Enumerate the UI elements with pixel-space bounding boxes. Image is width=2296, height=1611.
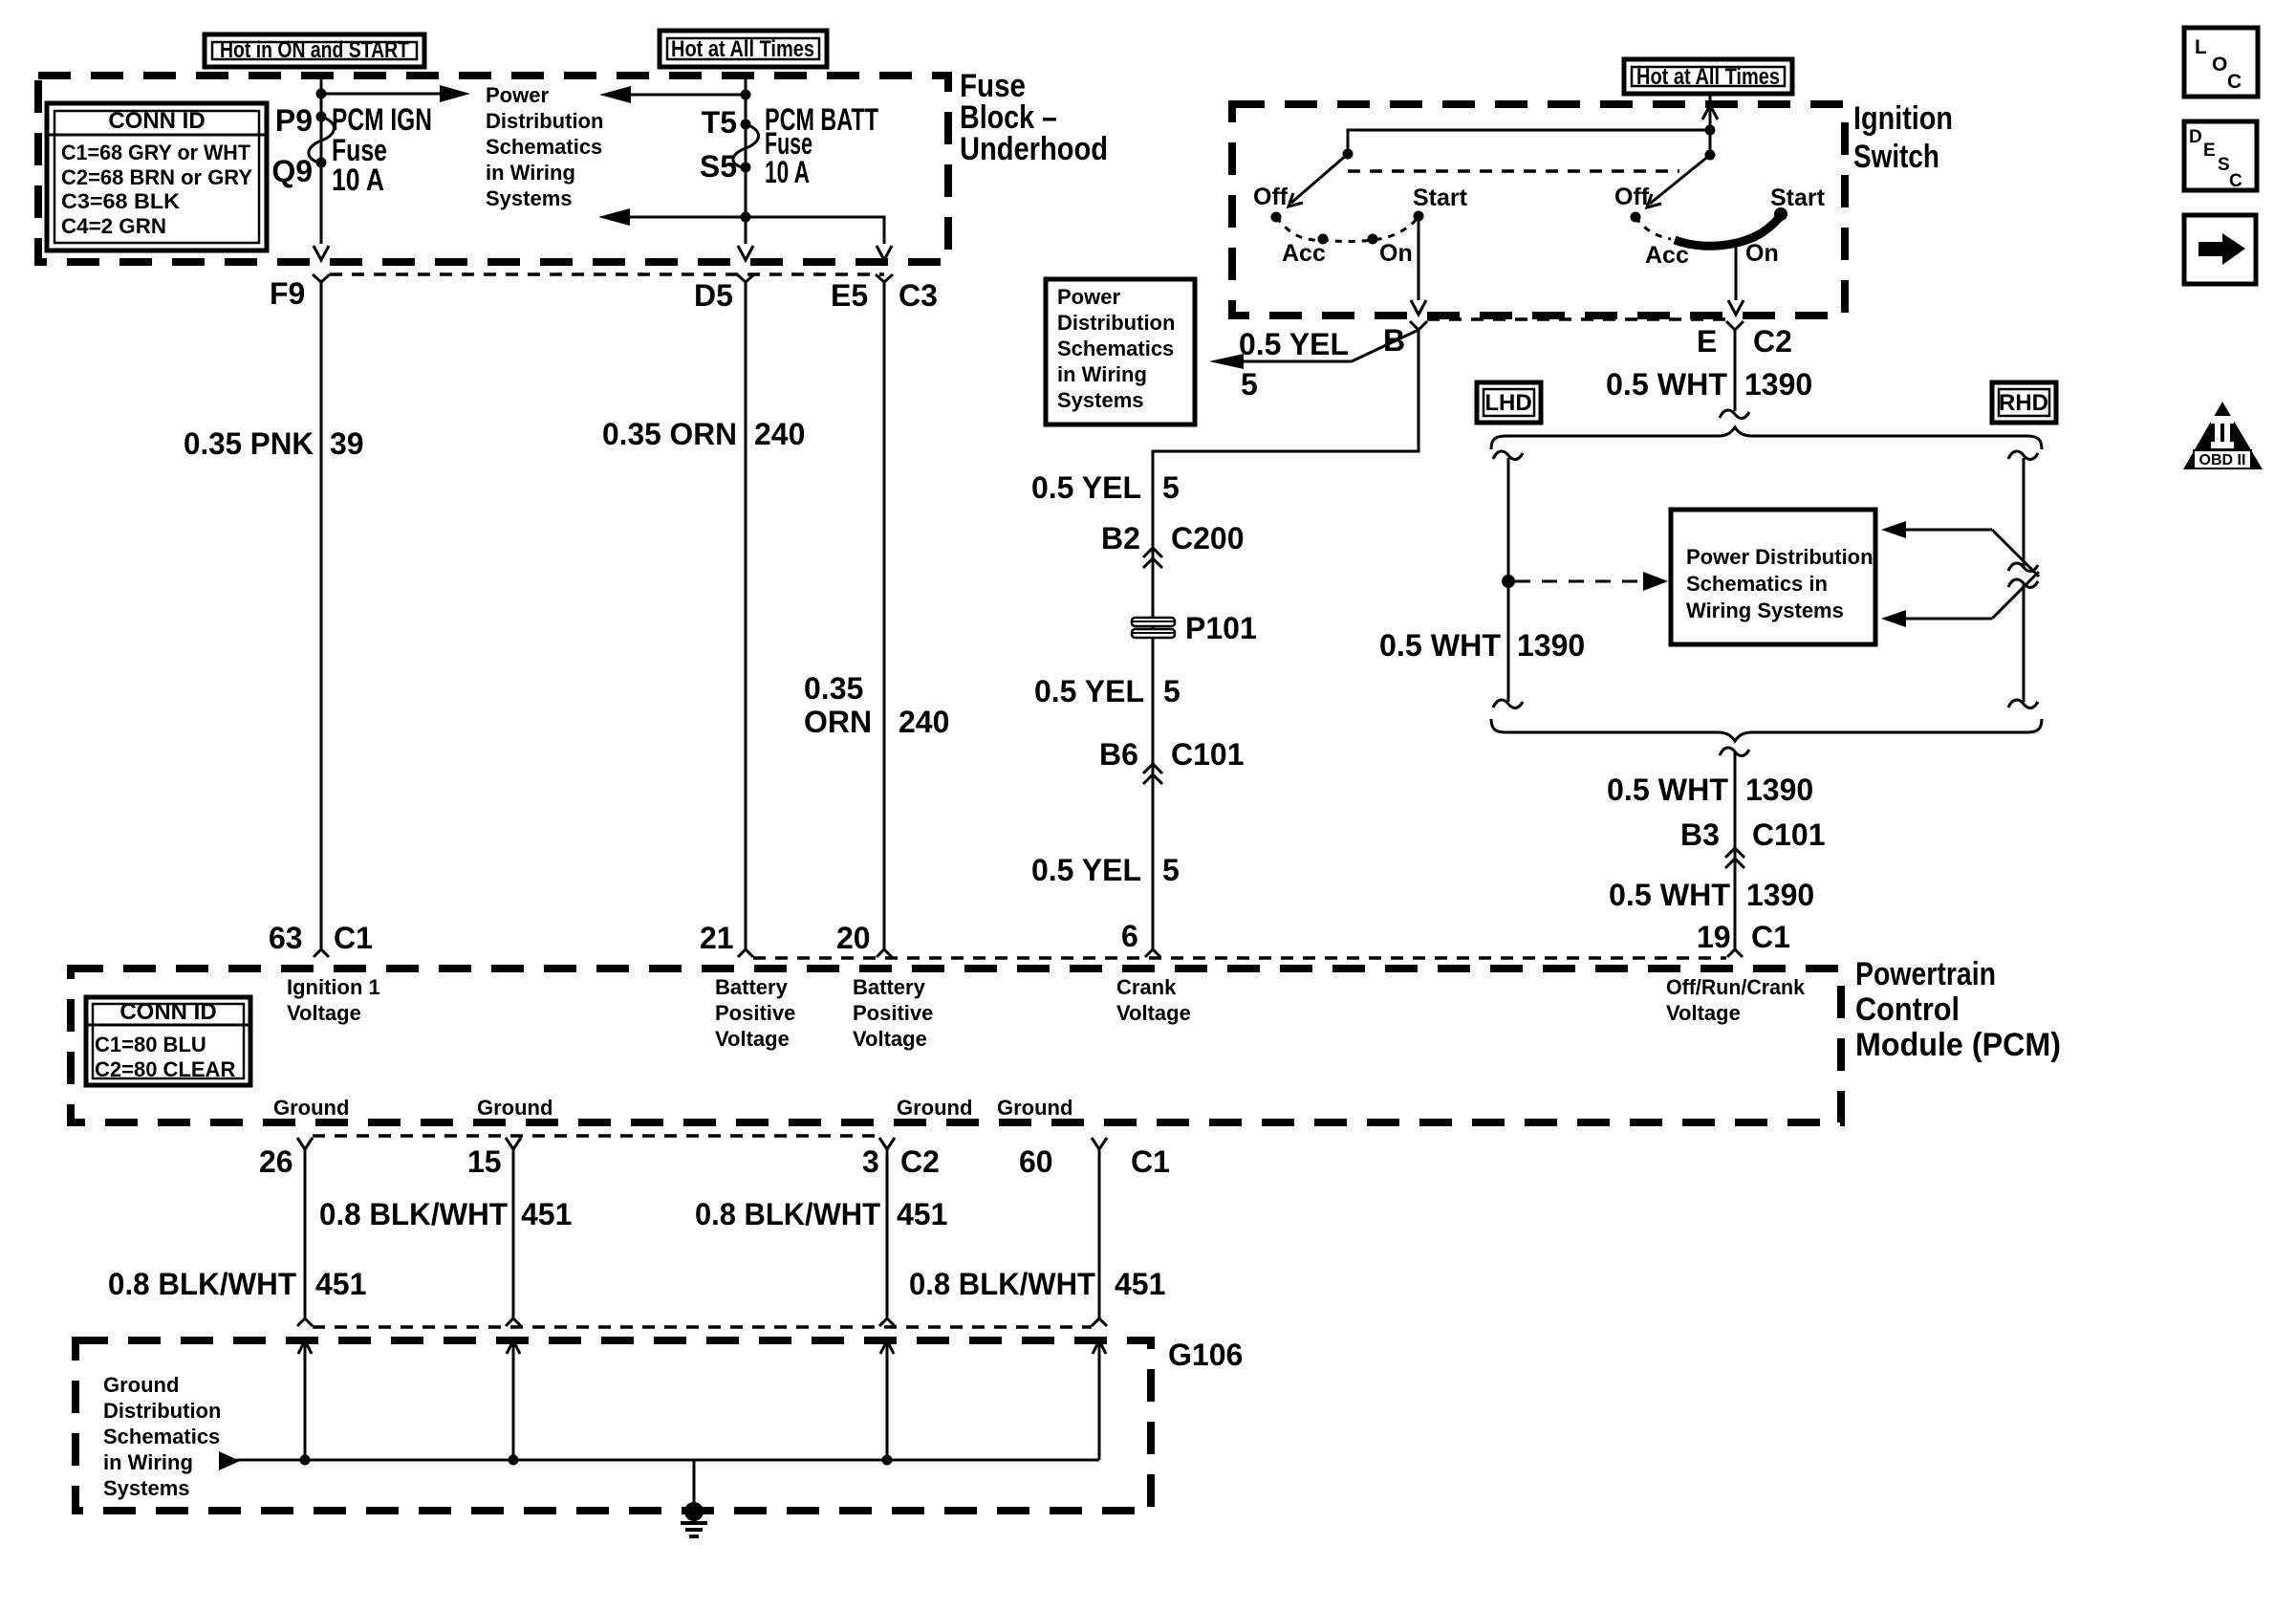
wire: ground 60 xyxy=(1098,1149,1101,1318)
svg-text:Underhood: Underhood xyxy=(960,131,1108,167)
svg-text:CONN ID: CONN ID xyxy=(108,108,205,134)
svg-text:Voltage: Voltage xyxy=(853,1027,927,1051)
svg-text:0.35: 0.35 xyxy=(804,671,863,706)
icon: LOC xyxy=(2184,28,2258,97)
fuse PCM IGN 10A xyxy=(309,112,335,168)
svg-text:0.8 BLK/WHT: 0.8 BLK/WHT xyxy=(108,1267,296,1301)
svg-text:63: 63 xyxy=(269,921,303,955)
arrow into G106 (wire 15) xyxy=(507,1340,520,1460)
wire: LHD branch xyxy=(1493,451,1523,708)
switch position labels right xyxy=(1614,184,1826,269)
svg-text:0.8 BLK/WHT: 0.8 BLK/WHT xyxy=(319,1197,508,1231)
svg-text:Off/Run/Crank: Off/Run/Crank xyxy=(1666,975,1806,999)
svg-text:ORN: ORN xyxy=(804,705,872,739)
svg-text:Ground: Ground xyxy=(477,1096,552,1120)
svg-text:240: 240 xyxy=(754,417,805,451)
svg-text:F9: F9 xyxy=(270,276,305,311)
svg-text:0.5 YEL: 0.5 YEL xyxy=(1031,853,1141,887)
connector 3 C2 xyxy=(879,1138,895,1149)
svg-text:0.5 WHT: 0.5 WHT xyxy=(1609,878,1730,912)
connector 20 xyxy=(877,949,892,957)
svg-text:451: 451 xyxy=(315,1267,366,1301)
svg-text:10 A: 10 A xyxy=(332,163,384,197)
svg-text:D5: D5 xyxy=(694,278,733,313)
svg-text:Voltage: Voltage xyxy=(1666,1001,1741,1025)
connector E / C2 xyxy=(1726,321,1744,330)
fuse PCM BATT 10A xyxy=(733,120,759,173)
svg-text:1390: 1390 xyxy=(1745,773,1813,807)
box: Power Distribution Schematics in Wiring Systems (left) xyxy=(1046,279,1195,425)
PCM dashed box xyxy=(71,969,1841,1122)
svg-text:C1: C1 xyxy=(334,921,373,955)
svg-text:Battery: Battery xyxy=(853,975,926,999)
svg-text:PCM IGN: PCM IGN xyxy=(332,102,432,137)
wire: branch arrow to Power Distribution Schematics text xyxy=(321,93,444,96)
svg-text:10 A: 10 A xyxy=(765,155,810,189)
svg-text:P101: P101 xyxy=(1185,611,1257,645)
svg-text:L: L xyxy=(2195,36,2207,58)
svg-text:S: S xyxy=(2218,155,2230,175)
svg-text:C2=80 CLEAR: C2=80 CLEAR xyxy=(95,1057,235,1081)
node: bus junction (wire 3) xyxy=(882,1455,893,1466)
svg-text:Power Distribution: Power Distribution xyxy=(1686,545,1874,569)
svg-text:Power: Power xyxy=(486,83,549,107)
svg-text:Off: Off xyxy=(1614,184,1650,210)
connector D5 xyxy=(737,274,754,282)
svg-text:3: 3 xyxy=(862,1144,879,1179)
node: junction on PCM IGN feed xyxy=(316,89,327,99)
svg-text:60: 60 xyxy=(1019,1144,1053,1179)
svg-text:C101: C101 xyxy=(1171,737,1245,772)
wire: second left arrow branch xyxy=(626,216,746,219)
wiper arrow right switch xyxy=(1647,155,1710,207)
node: junction below PCM BATT fuse xyxy=(741,212,751,223)
connector pass-through B6 C101 xyxy=(1099,737,1245,784)
svg-text:T5: T5 xyxy=(702,105,737,140)
node On (left switch) xyxy=(1368,234,1378,245)
svg-text:0.5 YEL: 0.5 YEL xyxy=(1031,470,1141,505)
svg-text:Distribution: Distribution xyxy=(486,109,603,133)
svg-text:Hot at All Times: Hot at All Times xyxy=(671,36,814,62)
connector 26 xyxy=(297,1138,313,1149)
svg-text:Ground: Ground xyxy=(273,1096,349,1120)
svg-text:Positive: Positive xyxy=(853,1001,933,1025)
node: bus junction (wire 15) xyxy=(509,1455,519,1466)
svg-text:Start: Start xyxy=(1770,185,1826,211)
connector 15 xyxy=(506,1138,521,1149)
PCM ground labels xyxy=(273,1096,1072,1120)
connector 6 xyxy=(1145,949,1160,957)
svg-text:Ground: Ground xyxy=(997,1096,1072,1120)
wire: On output down xyxy=(1735,244,1738,300)
wire: ground 26 xyxy=(304,1149,307,1318)
arrow up to Hot at All Times xyxy=(1702,105,1718,120)
svg-text:0.5 WHT: 0.5 WHT xyxy=(1379,628,1501,663)
wire: PCM IGN feed from fuse block top xyxy=(320,76,323,244)
node: junction on LHD wire xyxy=(1502,575,1515,588)
brace upper (LHD/RHD alternatives) xyxy=(1491,427,2042,449)
svg-text:Distribution: Distribution xyxy=(103,1399,221,1423)
svg-text:G106: G106 xyxy=(1168,1338,1243,1372)
icon: forward arrow xyxy=(2184,215,2256,284)
svg-text:5: 5 xyxy=(1241,367,1258,402)
svg-text:20: 20 xyxy=(836,921,871,955)
svg-text:Wiring Systems: Wiring Systems xyxy=(1686,599,1844,622)
svg-text:CONN ID: CONN ID xyxy=(119,999,216,1025)
svg-text:Ground: Ground xyxy=(897,1096,972,1120)
svg-text:5: 5 xyxy=(1162,470,1180,505)
title: Fuse Block - Underhood xyxy=(960,68,1108,167)
box: Power Distribution Schematics in Wiring Systems (right) xyxy=(1671,510,1875,644)
svg-text:in Wiring: in Wiring xyxy=(103,1450,193,1474)
node Off (right switch) xyxy=(1631,212,1641,223)
svg-text:6: 6 xyxy=(1121,919,1138,953)
svg-text:On: On xyxy=(1379,240,1413,267)
svg-text:Control: Control xyxy=(1855,991,1960,1028)
svg-text:0.5 YEL: 0.5 YEL xyxy=(1034,674,1144,708)
svg-text:1390: 1390 xyxy=(1744,367,1812,402)
svg-text:Acc: Acc xyxy=(1282,240,1326,267)
wire: E output down to brace xyxy=(1734,330,1737,411)
arrow into connector B xyxy=(1411,300,1426,315)
connector 21 xyxy=(738,949,753,957)
svg-text:D: D xyxy=(2189,127,2202,147)
svg-text:S5: S5 xyxy=(700,149,737,184)
switch rotor thick arc (On position) xyxy=(1675,214,1782,246)
svg-text:1390: 1390 xyxy=(1517,628,1585,663)
CONN ID table (fuse block) xyxy=(47,103,267,250)
arrow into G106 (wire 60) xyxy=(1093,1340,1106,1460)
svg-text:Hot at All Times: Hot at All Times xyxy=(1636,64,1780,90)
svg-text:Voltage: Voltage xyxy=(715,1027,790,1051)
svg-text:C1=80 BLU: C1=80 BLU xyxy=(95,1033,206,1056)
svg-text:26: 26 xyxy=(259,1144,293,1179)
svg-text:Voltage: Voltage xyxy=(287,1001,361,1025)
svg-text:21: 21 xyxy=(700,921,734,955)
arrow into connector F9 xyxy=(314,246,329,260)
text: Power Distribution Schematics in Wiring Systems (fuse block) xyxy=(486,83,603,210)
node Start (left switch) xyxy=(1414,211,1424,222)
svg-text:Hot in ON and START: Hot in ON and START xyxy=(220,37,409,63)
svg-text:39: 39 xyxy=(330,426,364,461)
svg-text:in Wiring: in Wiring xyxy=(486,161,575,185)
connector into G106 (wire 26) xyxy=(297,1318,313,1326)
connector into G106 (wire 3) xyxy=(879,1318,895,1326)
connector E5 xyxy=(876,274,893,282)
svg-text:Schematics: Schematics xyxy=(486,135,602,159)
switch position labels left xyxy=(1253,184,1468,267)
value label: PCM IGN Fuse 10 A xyxy=(332,102,432,197)
svg-text:5: 5 xyxy=(1163,674,1180,708)
wire: fuse block connector dashed line xyxy=(330,272,884,276)
svg-text:E5: E5 xyxy=(831,278,868,313)
value label: PCM BATT Fuse 10 A xyxy=(765,102,878,189)
svg-text:C: C xyxy=(2229,171,2242,191)
svg-text:Acc: Acc xyxy=(1645,242,1689,269)
svg-text:RHD: RHD xyxy=(1999,390,2048,416)
arrow into connector D5 xyxy=(738,246,753,260)
wire: PCM bottom connector dashed line xyxy=(313,1134,879,1138)
wire: ground 15 xyxy=(512,1149,515,1318)
svg-text:Power: Power xyxy=(1057,285,1120,309)
label box LHD xyxy=(1477,382,1541,423)
svg-text:Q9: Q9 xyxy=(271,154,313,188)
svg-text:240: 240 xyxy=(899,705,949,739)
fuse block dashed box xyxy=(38,76,948,262)
svg-text:C3=68 BLK: C3=68 BLK xyxy=(61,189,180,213)
node: ignition feed junction xyxy=(1705,125,1716,136)
svg-text:C4=2 GRN: C4=2 GRN xyxy=(61,214,166,238)
svg-text:Distribution: Distribution xyxy=(1057,311,1175,335)
svg-text:451: 451 xyxy=(521,1197,572,1231)
wire: G106 connector dashed line xyxy=(313,1325,1092,1329)
title: Powertrain Control Module (PCM) xyxy=(1855,956,2061,1063)
arrow to Ground Distribution Schematics xyxy=(219,1451,240,1470)
svg-text:15: 15 xyxy=(467,1144,502,1179)
node: junction on PCM BATT feed xyxy=(741,90,751,100)
text: Ground Distribution Schematics in Wiring Systems xyxy=(103,1373,221,1500)
svg-text:B6: B6 xyxy=(1099,737,1138,772)
svg-text:Systems: Systems xyxy=(103,1476,190,1500)
node Acc (left switch) xyxy=(1318,234,1329,245)
connector 60 C1 xyxy=(1092,1138,1107,1149)
svg-text:1390: 1390 xyxy=(1746,878,1814,912)
svg-text:19: 19 xyxy=(1697,920,1731,954)
svg-text:0.8 BLK/WHT: 0.8 BLK/WHT xyxy=(909,1267,1095,1301)
svg-text:Positive: Positive xyxy=(715,1001,795,1025)
svg-text:Systems: Systems xyxy=(486,186,573,210)
wiper arrow left switch xyxy=(1289,154,1348,207)
svg-text:Voltage: Voltage xyxy=(1116,1001,1191,1025)
node: left pole pivot xyxy=(1343,149,1354,160)
svg-text:Schematics in: Schematics in xyxy=(1686,572,1828,596)
connector F9 xyxy=(313,274,330,282)
brace lower xyxy=(1491,719,2042,741)
ground G106 symbol xyxy=(681,1460,707,1536)
svg-text:C101: C101 xyxy=(1752,817,1826,852)
connector 63 C1 xyxy=(314,949,329,957)
node Off (left switch) xyxy=(1271,212,1282,223)
svg-text:B2: B2 xyxy=(1101,521,1140,555)
svg-text:C2: C2 xyxy=(900,1144,940,1179)
wire: ignition bus to left pole xyxy=(1348,130,1710,154)
wire: branch right to E5 xyxy=(746,217,884,244)
wire: RHD branch xyxy=(2008,451,2038,708)
wire: ignition connector dashed line xyxy=(1427,317,1726,321)
ignition switch dashed box xyxy=(1232,104,1845,316)
svg-text:OBD II: OBD II xyxy=(2199,452,2246,468)
svg-text:On: On xyxy=(1745,240,1779,267)
node: bus junction (wire 26) xyxy=(300,1455,311,1466)
wire: battery feed into ignition switch xyxy=(1709,95,1712,155)
ground G106 dashed box xyxy=(76,1340,1151,1511)
connector 19 C1 xyxy=(1727,949,1743,957)
PCM pin function labels xyxy=(287,975,1806,1051)
wire: PCM top connector dashed line xyxy=(753,956,1726,960)
svg-text:Schematics: Schematics xyxy=(103,1425,220,1448)
wire: dashed reference to Power Distribution box xyxy=(1515,580,1640,583)
svg-text:B3: B3 xyxy=(1680,817,1720,852)
connector into G106 (wire 60) xyxy=(1092,1318,1107,1326)
svg-text:Powertrain: Powertrain xyxy=(1855,956,1996,992)
connector pass-through B3 C101 xyxy=(1680,817,1826,868)
wire: off/run/crank voltage down from brace xyxy=(1720,748,1749,949)
svg-text:E: E xyxy=(1697,324,1717,359)
svg-text:C1=68 GRY or WHT: C1=68 GRY or WHT xyxy=(61,141,251,164)
svg-text:Battery: Battery xyxy=(715,975,789,999)
svg-text:0.35 PNK: 0.35 PNK xyxy=(184,426,314,461)
svg-text:Ignition 1: Ignition 1 xyxy=(287,975,380,999)
switch arc left (dashed) xyxy=(1276,217,1419,242)
wire: lower arrow from RHD xyxy=(1881,572,2039,627)
label box: Hot at All Times (ignition) xyxy=(1624,59,1792,94)
svg-text:0.5 YEL: 0.5 YEL xyxy=(1239,327,1349,361)
svg-text:Ground: Ground xyxy=(103,1373,179,1397)
svg-text:Module (PCM): Module (PCM) xyxy=(1855,1027,2061,1063)
svg-text:5: 5 xyxy=(1162,853,1180,887)
title: Ignition Switch xyxy=(1853,100,1953,175)
icon: DESC xyxy=(2184,121,2257,191)
svg-text:C200: C200 xyxy=(1171,521,1245,555)
svg-text:C2: C2 xyxy=(1753,324,1792,359)
arrow into G106 (wire 3) xyxy=(880,1340,894,1460)
arrow into connector E xyxy=(1728,300,1744,315)
svg-text:P9: P9 xyxy=(275,103,313,138)
node: right pole pivot xyxy=(1705,150,1716,161)
CONN ID table (PCM) xyxy=(86,997,250,1085)
wire: upper arrow from RHD xyxy=(1881,521,2039,577)
svg-text:0.8 BLK/WHT: 0.8 BLK/WHT xyxy=(695,1197,880,1231)
wire: ground 3 xyxy=(886,1149,889,1318)
wire: G106 ground bus xyxy=(236,1459,1099,1462)
svg-text:C1: C1 xyxy=(1131,1144,1170,1179)
svg-text:Off: Off xyxy=(1253,184,1289,210)
wire: left arrow branch to Power Distribution text xyxy=(627,94,746,97)
switch arc right dashed segment xyxy=(1635,217,1671,239)
svg-text:0.35 ORN: 0.35 ORN xyxy=(602,417,737,451)
wire: PCM BATT feed xyxy=(745,76,747,244)
label box: Hot in ON and START xyxy=(205,34,424,67)
svg-text:Schematics: Schematics xyxy=(1057,337,1174,360)
wire: B branch diagonal to 0.5 YEL arrow xyxy=(1224,330,1419,361)
svg-text:C2=68 BRN or GRY: C2=68 BRN or GRY xyxy=(61,165,252,189)
svg-text:Crank: Crank xyxy=(1116,975,1177,999)
wire break hook xyxy=(1720,410,1749,418)
svg-text:Systems: Systems xyxy=(1057,388,1144,412)
wire: start output down xyxy=(1418,216,1420,300)
label box: Hot at All Times (fuse block) xyxy=(660,31,827,67)
svg-text:E: E xyxy=(2203,141,2216,161)
arrow into connector E5 xyxy=(877,246,892,260)
svg-text:Switch: Switch xyxy=(1853,139,1939,175)
label box RHD xyxy=(1992,382,2056,423)
icon: OBD II triangle xyxy=(2183,402,2263,469)
arrow into G106 (wire 26) xyxy=(298,1340,312,1460)
svg-text:Start: Start xyxy=(1413,185,1468,211)
wire: pivot dashed link xyxy=(1348,169,1679,173)
svg-text:C: C xyxy=(2227,71,2242,93)
svg-text:in Wiring: in Wiring xyxy=(1057,362,1147,386)
svg-text:C3: C3 xyxy=(899,278,938,313)
wire: battery positive 0.35 ORN 240 (E5-20) xyxy=(883,282,886,949)
connector pass-through B2 C200 xyxy=(1101,521,1245,568)
svg-text:O: O xyxy=(2212,54,2227,76)
svg-text:0.5 WHT: 0.5 WHT xyxy=(1606,367,1727,402)
wire: battery positive 0.35 ORN 240 (D5-21) xyxy=(745,282,747,949)
connector B xyxy=(1410,321,1427,330)
svg-text:C1: C1 xyxy=(1751,920,1790,954)
svg-text:0.5 WHT: 0.5 WHT xyxy=(1607,773,1728,807)
wire: ignition 1 voltage 0.35 PNK 39 xyxy=(320,282,323,949)
wire: B output down to crank column xyxy=(1153,330,1419,949)
svg-text:451: 451 xyxy=(1115,1267,1165,1301)
grommet P101 xyxy=(1132,611,1257,645)
svg-text:451: 451 xyxy=(897,1197,947,1231)
svg-text:Ignition: Ignition xyxy=(1853,100,1953,137)
connector into G106 (wire 15) xyxy=(506,1318,521,1326)
svg-text:LHD: LHD xyxy=(1484,390,1531,416)
